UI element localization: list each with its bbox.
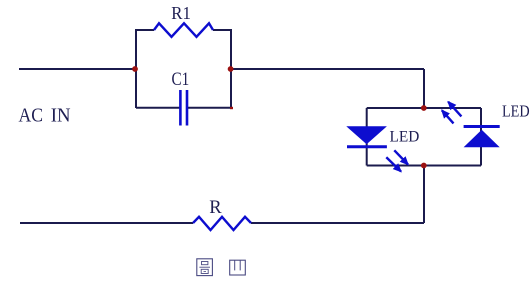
svg-text:R1: R1 [171, 3, 191, 23]
svg-text:C1: C1 [172, 70, 190, 90]
svg-text:LED: LED [502, 101, 530, 120]
svg-text:LED: LED [390, 129, 420, 146]
svg-text:AC: AC [19, 105, 44, 127]
svg-text:R: R [209, 198, 222, 218]
svg-text:IN: IN [51, 105, 71, 127]
